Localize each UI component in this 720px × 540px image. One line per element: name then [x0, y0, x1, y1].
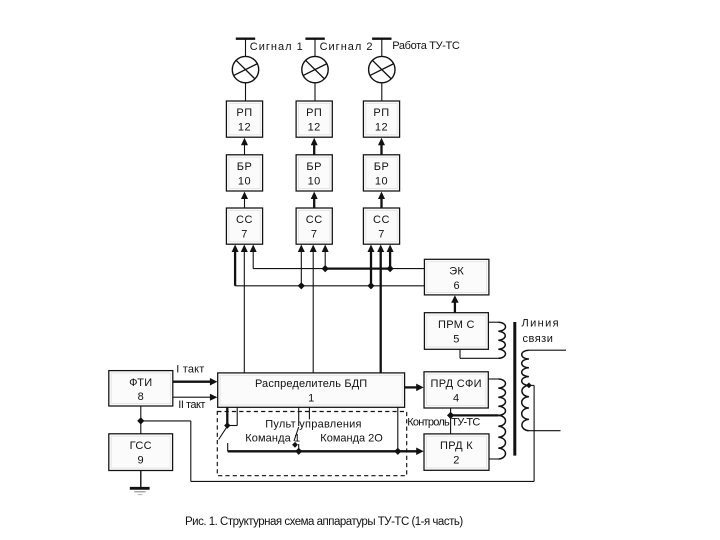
arrow СС1 to БР1: [244, 197, 246, 208]
receive winding L1: [498, 322, 505, 358]
svg-text:Контроль ТУ-ТС: Контроль ТУ-ТС: [407, 417, 480, 429]
switch SA1 Команда 1: [226, 407, 228, 425]
wire ПРМ С to receive winding (top): [488, 321, 498, 323]
wire ПРД СФИ to ПРД К: [450, 408, 452, 434]
arrow Распределитель to ПРД СФИ: [405, 386, 418, 388]
wire СС2 left to lower bus: [300, 250, 302, 286]
svg-text:ПРД К: ПРД К: [440, 440, 473, 452]
wire СС2 right to upper bus: [324, 250, 326, 269]
svg-text:4: 4: [453, 392, 459, 404]
line winding L3 (Линия связи): [522, 350, 529, 385]
wire СС3 middle to Распределитель: [380, 250, 382, 373]
svg-text:2: 2: [453, 455, 459, 467]
junction on upper bus at СС2: [322, 265, 329, 272]
arrow БР1 to РП1: [244, 143, 246, 155]
arrow ПРМ С to ЭК: [454, 301, 456, 313]
dashed enclosure Пульт управления: [217, 412, 406, 476]
block РП 12 (column 1): [226, 101, 262, 137]
svg-text:РП: РП: [236, 107, 252, 119]
wire СС1 middle to Распределитель: [243, 250, 245, 373]
junction on lower bus at СС3: [367, 282, 374, 289]
svg-text:СС: СС: [306, 214, 323, 226]
svg-text:СС: СС: [373, 214, 390, 226]
svg-text:12: 12: [375, 122, 388, 134]
ground symbol: [140, 471, 142, 489]
arrow БР2 to РП2: [313, 143, 315, 155]
lamp HL1 Сигнал 1: [232, 56, 258, 82]
junction command bus at SA2: [295, 448, 302, 455]
svg-text:Работа ТУ-ТС: Работа ТУ-ТС: [392, 40, 460, 52]
svg-text:10: 10: [238, 175, 251, 187]
junction command bus at контроль wire: [394, 448, 401, 455]
svg-text:БР: БР: [374, 161, 390, 173]
svg-text:10: 10: [375, 175, 388, 187]
svg-text:Линия: Линия: [522, 317, 561, 329]
svg-text:Пульт управления: Пульт управления: [265, 419, 362, 431]
wire Распределитель to command bus: [397, 407, 399, 451]
wire lamp 1 to РП block: [245, 83, 247, 101]
wire lamp 2 to РП block: [314, 83, 316, 101]
svg-text:6: 6: [453, 280, 459, 292]
wire line out (bottom): [529, 430, 561, 432]
switch SA2 Команда 2: [298, 407, 300, 426]
junction контроль node: [447, 412, 454, 419]
junction ФТИ-ГСС node: [137, 417, 144, 424]
svg-text:Сигнал 2: Сигнал 2: [320, 41, 374, 53]
block ФТИ 8: [109, 371, 173, 406]
arrow into СС1 left (from lower bus corner): [234, 250, 236, 286]
block СС 7 (column 2): [296, 208, 332, 244]
svg-text:БР: БР: [237, 161, 253, 173]
svg-text:Команда 1: Команда 1: [245, 433, 300, 445]
wire СС3 right to upper bus: [389, 250, 391, 269]
arrow ФТИ to Распределитель (II такт): [173, 396, 212, 398]
block БР 10 (column 1): [226, 155, 262, 191]
wire transmit winding to ПРД К (bottom): [489, 458, 498, 460]
upper bus wire (СС right stems to ЭК): [253, 268, 325, 270]
terminal bar T2: [305, 38, 324, 40]
block СС 7 (column 3): [363, 208, 399, 244]
lamp HL3 Работа ТУ-ТС: [369, 56, 395, 82]
svg-text:5: 5: [453, 333, 459, 345]
arrow ФТИ to Распределитель (I такт): [173, 381, 212, 383]
svg-text:ГСС: ГСС: [130, 440, 152, 452]
svg-text:ФТИ: ФТИ: [129, 377, 152, 389]
block БР 10 (column 2): [296, 155, 332, 191]
svg-text:II такт: II такт: [178, 399, 205, 411]
lamp HL2 Сигнал 2: [302, 56, 328, 82]
svg-text:Сигнал 1: Сигнал 1: [250, 41, 304, 53]
command bus wire to ПРД К: [228, 450, 418, 452]
wire СС2 middle to Распределитель: [312, 250, 314, 373]
terminal bar T3: [372, 38, 391, 40]
block БР 10 (column 3): [363, 155, 399, 191]
svg-text:7: 7: [241, 229, 248, 241]
block Распределитель БДП 1: [218, 373, 405, 407]
svg-text:СС: СС: [236, 214, 253, 226]
svg-text:БР: БР: [306, 161, 322, 173]
arrow БР3 to РП3: [380, 143, 382, 155]
svg-text:связи: связи: [523, 333, 554, 345]
block ПРД К 2: [424, 434, 489, 470]
block СС 7 (column 1): [226, 208, 262, 244]
svg-text:Распределитель БДП: Распределитель БДП: [255, 378, 367, 390]
block ГСС 9: [109, 434, 173, 471]
wire line out (top): [529, 349, 566, 351]
block ПРД СФИ 4: [424, 372, 488, 408]
wire lamp 3 to РП block: [381, 83, 383, 101]
svg-text:1: 1: [308, 393, 314, 405]
block РП 12 (column 3): [363, 101, 399, 137]
svg-text:12: 12: [238, 122, 251, 134]
arrow СС2 to БР2: [313, 197, 315, 208]
svg-text:9: 9: [137, 454, 143, 466]
svg-text:Команда 2О: Команда 2О: [320, 433, 383, 445]
junction on upper bus at СС3: [387, 265, 394, 272]
lower bus wire (СС left stems to ЭК): [235, 285, 424, 287]
wire СС1 right to upper bus corner: [252, 250, 254, 269]
arrow into СС3 left (to lower bus): [370, 250, 372, 286]
transmit winding L2: [498, 379, 505, 415]
svg-text:10: 10: [308, 175, 321, 187]
terminal bar T1: [236, 38, 255, 40]
block ЭК 6: [424, 259, 489, 295]
arrow СС3 to БР3: [380, 197, 382, 208]
svg-text:12: 12: [308, 122, 321, 134]
wire terminal T2 to lamp: [314, 40, 316, 57]
wire ГСС node to line-winding tap: [141, 420, 191, 422]
junction on lower bus at СС2: [298, 282, 305, 289]
svg-text:7: 7: [311, 229, 318, 241]
svg-text:ПРД СФИ: ПРД СФИ: [430, 378, 481, 390]
svg-text:РП: РП: [373, 107, 389, 119]
svg-text:I такт: I такт: [176, 364, 204, 376]
wire receive winding to ПРМ С (bottom): [460, 357, 498, 359]
svg-text:8: 8: [138, 391, 144, 403]
svg-text:ЭК: ЭК: [449, 266, 464, 278]
wire контроль ТУ-ТС to transmit winding: [451, 414, 499, 416]
block РП 12 (column 2): [296, 101, 332, 137]
wire terminal T3 to lamp: [381, 40, 383, 57]
svg-text:ПРМ С: ПРМ С: [438, 319, 475, 331]
svg-text:Рис. 1. Структурная схема аппа: Рис. 1. Структурная схема аппаратуры ТУ-…: [185, 516, 463, 528]
block ПРМ С 5: [424, 313, 488, 350]
wire ПРД СФИ to transmit winding (top): [488, 378, 498, 380]
junction line winding centre tap: [526, 383, 532, 389]
svg-text:РП: РП: [306, 107, 322, 119]
wire ФТИ to ГСС: [140, 406, 142, 434]
wire terminal T1 to lamp: [245, 40, 247, 57]
transformer core bar: [513, 322, 516, 456]
svg-text:7: 7: [378, 229, 385, 241]
